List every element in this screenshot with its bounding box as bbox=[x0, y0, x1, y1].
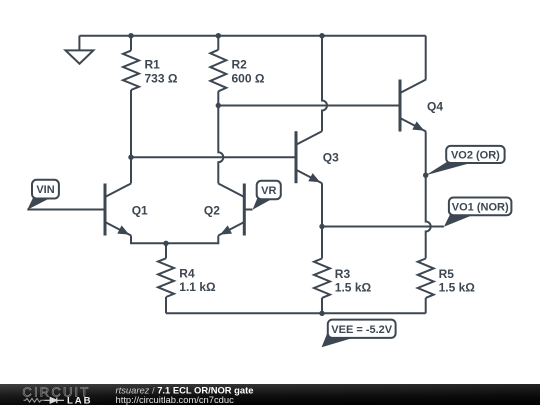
svg-text:R3: R3 bbox=[335, 267, 351, 281]
svg-text:VR: VR bbox=[261, 185, 276, 197]
footer bar bbox=[0, 384, 540, 405]
wire Q3 emitter to R3 bbox=[321, 183, 323, 258]
flag VO2 (OR) bbox=[426, 146, 505, 175]
svg-text:R2: R2 bbox=[232, 58, 248, 72]
wire Q3 collector drop with hop bbox=[322, 36, 327, 132]
wire R1 top lead bbox=[130, 36, 132, 51]
resistor R2 bbox=[210, 50, 265, 92]
node junction R1 bottom bbox=[128, 155, 133, 160]
wire Q3 base rail bbox=[131, 156, 296, 158]
wire VO1 rail bbox=[322, 226, 444, 228]
transistor Q3 bbox=[296, 131, 339, 183]
svg-text:R4: R4 bbox=[179, 266, 195, 280]
wire R2 top lead bbox=[217, 36, 219, 50]
node junction emitter bus bbox=[163, 241, 168, 246]
wire R3 bottom lead bbox=[321, 298, 323, 313]
svg-text:1.5 kΩ: 1.5 kΩ bbox=[439, 281, 476, 295]
svg-text:1.1 kΩ: 1.1 kΩ bbox=[179, 280, 216, 294]
svg-text:Q4: Q4 bbox=[427, 100, 443, 114]
svg-text:http://circuitlab.com/cn7cduc: http://circuitlab.com/cn7cduc bbox=[116, 394, 235, 405]
wire R4 bottom lead bbox=[165, 297, 167, 313]
logo resistor squiggle bbox=[24, 398, 45, 402]
svg-text:Q2: Q2 bbox=[204, 203, 220, 217]
svg-text:733 Ω: 733 Ω bbox=[145, 72, 178, 86]
logo diode bbox=[45, 398, 65, 404]
svg-text:Q1: Q1 bbox=[132, 203, 148, 217]
transistor Q2 bbox=[204, 184, 244, 236]
wire R1 bottom to Q1 collector bbox=[130, 90, 132, 184]
wire R5 bottom lead bbox=[425, 298, 427, 313]
wire Q2 base to VR bbox=[244, 209, 252, 211]
flag VEE = -5.2V bbox=[322, 320, 396, 348]
flag VR bbox=[253, 181, 281, 210]
svg-text:Q3: Q3 bbox=[323, 150, 339, 164]
wire top rail bbox=[79, 35, 425, 37]
wire Q4 emitter to R5 with hop bbox=[426, 132, 431, 259]
transistor Q1 bbox=[105, 184, 148, 236]
wire bottom rail bbox=[166, 312, 426, 314]
wire R2 bottom to Q2 collector with hop bbox=[218, 91, 223, 183]
node junction VO2 bbox=[423, 173, 428, 178]
node junction R2 bottom bbox=[216, 103, 221, 108]
svg-text:VO1 (NOR): VO1 (NOR) bbox=[452, 201, 509, 213]
svg-text:VIN: VIN bbox=[36, 184, 54, 196]
svg-text:LAB: LAB bbox=[67, 395, 92, 405]
svg-text:VO2 (OR): VO2 (OR) bbox=[451, 150, 500, 162]
flag VIN bbox=[27, 180, 59, 210]
resistor R5 bbox=[418, 259, 476, 298]
node junction R1 top bbox=[128, 33, 133, 38]
node junction R2 top bbox=[216, 33, 221, 38]
node junction bottom rail R3 bbox=[319, 311, 324, 316]
wire Q4 base rail bbox=[218, 105, 400, 107]
transistor Q4 bbox=[400, 80, 443, 132]
wire emitter bus Q1-Q2 bbox=[131, 236, 218, 244]
svg-text:1.5 kΩ: 1.5 kΩ bbox=[335, 281, 372, 295]
flag VO1 (NOR) bbox=[444, 198, 512, 227]
svg-text:R5: R5 bbox=[439, 267, 455, 281]
resistor R1 bbox=[123, 51, 178, 90]
node junction Q3 collector top bbox=[319, 33, 324, 38]
resistor R3 bbox=[314, 259, 371, 298]
wire R4 top lead bbox=[165, 243, 167, 258]
ground bbox=[66, 36, 94, 64]
node junction Q3 emitter bbox=[319, 224, 324, 229]
svg-text:R1: R1 bbox=[145, 58, 161, 72]
wire VIN to Q1 base bbox=[27, 209, 105, 211]
wire Q4 collector drop bbox=[425, 36, 427, 80]
resistor R4 bbox=[158, 258, 216, 297]
svg-text:600 Ω: 600 Ω bbox=[232, 72, 265, 86]
svg-text:VEE = -5.2V: VEE = -5.2V bbox=[331, 324, 393, 336]
